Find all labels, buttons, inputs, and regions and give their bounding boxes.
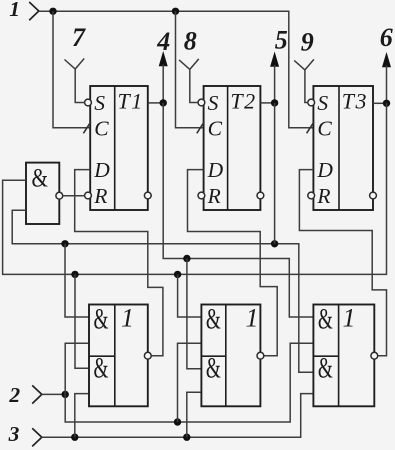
wire net-Q1 horizontal — [163, 103, 313, 317]
svg-text:1: 1 — [121, 303, 134, 332]
svg-text:1: 1 — [9, 0, 20, 21]
output arrow 6 — [382, 52, 391, 67]
wire input3 riser to gate2 input — [187, 392, 202, 437]
junction dot Q3-net to gate2 — [174, 271, 181, 278]
wire antenna 8 to S of T2 — [189, 102, 198, 104]
pin S bubble of T2 — [198, 99, 205, 106]
pin Q-bar bubble of T1 — [144, 192, 151, 199]
svg-text:D: D — [93, 158, 110, 182]
svg-text:&: & — [32, 163, 49, 192]
wire input 3 horizontal — [42, 394, 314, 438]
wire input-1 top rail — [39, 11, 314, 128]
junction dot Q2-net to gate1 — [61, 240, 68, 247]
wire Q1-net dropper to gate2 input — [187, 259, 202, 369]
svg-text:C: C — [317, 116, 332, 140]
junction dot Q2-net from T2 — [271, 240, 278, 247]
svg-text:8: 8 — [184, 27, 197, 56]
svg-text:&: & — [206, 303, 221, 336]
wire Q2-net dropper to gate1 input — [65, 244, 89, 317]
pin Q-bar bubble of T3 — [370, 192, 377, 199]
pin C dynamic slash of T3 — [307, 122, 314, 134]
junction dot Q3 — [383, 100, 390, 107]
svg-text:&: & — [94, 303, 109, 336]
flip-flop T2 body — [204, 86, 261, 210]
wire clock dropper to C of T1 — [53, 11, 90, 128]
junction dot Q2 — [271, 99, 278, 106]
AND gate DD1 body — [26, 163, 59, 224]
wire Q of T1 to junction — [148, 102, 163, 104]
input terminal 1 chevron — [29, 2, 39, 20]
junction dot Q1 — [160, 99, 167, 106]
junction dot Q1-net to gate2 — [183, 255, 190, 262]
wire gate3 output to D of T3 — [299, 170, 386, 356]
antenna terminal 7 — [65, 59, 85, 103]
svg-text:S: S — [94, 91, 105, 115]
gate D3 output bubble — [371, 352, 378, 359]
junction dot clock to T1 — [49, 8, 56, 15]
svg-text:3: 3 — [8, 422, 20, 446]
wire Q3-net dropper to gate2 input — [178, 274, 202, 317]
input terminal 2 chevron — [32, 385, 42, 403]
wire gate1 output to D of T1 — [75, 170, 163, 356]
output arrow 4 — [159, 51, 168, 66]
AND-OR gate D1 body — [89, 303, 148, 407]
junction dot input2 at gate1 — [61, 391, 68, 398]
wire antenna 9 to S of T3 — [304, 102, 308, 104]
gate D2 output bubble — [257, 352, 264, 359]
flip-flop T3 body — [313, 86, 373, 210]
flip-flop T1 body — [90, 86, 148, 210]
wire input2 lower branch — [65, 343, 313, 422]
svg-text:D: D — [316, 158, 333, 182]
output arrow 5 — [270, 52, 279, 67]
wire Q3-net dropper to gate1 input — [75, 274, 89, 368]
svg-text:6: 6 — [380, 23, 393, 52]
svg-text:T1: T1 — [118, 88, 144, 113]
pin Q-bar bubble of T2 — [257, 192, 264, 199]
junction dot input3 at gate1 — [71, 434, 78, 441]
svg-text:C: C — [94, 116, 109, 140]
svg-text:&: & — [206, 352, 221, 385]
antenna terminal 8 — [179, 59, 199, 103]
pin C dynamic slash of T1 — [83, 122, 90, 134]
svg-text:S: S — [208, 91, 219, 115]
svg-text:1: 1 — [343, 303, 356, 332]
svg-text:R: R — [207, 184, 221, 208]
wire Q of T2 to junction — [260, 102, 274, 104]
svg-text:T2: T2 — [230, 88, 256, 113]
pin R bubble of T3 — [308, 192, 315, 199]
svg-text:5: 5 — [275, 26, 288, 55]
wire Q of T3 to junction — [373, 102, 387, 104]
pin S bubble of T1 — [85, 99, 92, 106]
svg-text:R: R — [93, 184, 107, 208]
svg-text:S: S — [317, 91, 328, 115]
svg-text:7: 7 — [72, 23, 86, 52]
svg-text:9: 9 — [301, 28, 314, 57]
svg-text:2: 2 — [8, 383, 20, 407]
pin R bubble of T1 — [85, 192, 92, 199]
pin S bubble of T3 — [308, 99, 315, 106]
wire input2 riser to gate1 input — [65, 343, 89, 394]
svg-text:R: R — [316, 184, 330, 208]
wire clock dropper to C of T2 — [176, 11, 204, 128]
svg-text:&: & — [318, 352, 333, 385]
junction dot Q3-net to gate1 — [71, 271, 78, 278]
junction dot input2 at gate2 — [174, 418, 181, 425]
wire input 2 horizontal — [42, 393, 65, 395]
junction dot input3 at gate2 — [183, 434, 190, 441]
pin C dynamic slash of T2 — [197, 122, 204, 134]
svg-text:&: & — [318, 303, 333, 336]
svg-text:T3: T3 — [342, 88, 368, 113]
junction dot clock to T2 — [172, 8, 179, 15]
wire AND output to R of T1 — [63, 195, 85, 197]
svg-text:&: & — [94, 352, 109, 385]
AND gate output bubble — [56, 192, 63, 199]
svg-text:D: D — [207, 158, 224, 182]
pin R bubble of T2 — [198, 192, 205, 199]
wire input2 riser to gate2 input — [178, 343, 202, 422]
wire gate2 output to D of T2 — [188, 170, 278, 356]
antenna terminal 9 — [294, 59, 314, 103]
wire net-Q3 horizontal B — [3, 103, 387, 274]
AND-OR gate D2 body — [201, 303, 260, 407]
AND-OR gate D3 body — [313, 303, 374, 407]
svg-text:1: 1 — [246, 303, 259, 332]
gate D1 output bubble — [144, 352, 151, 359]
wire T2 Q vertical to net A — [274, 103, 276, 244]
wire net-Q2 horizontal A — [12, 210, 313, 372]
wire antenna 7 to S of T1 — [75, 102, 85, 104]
svg-text:C: C — [208, 116, 223, 140]
wire input3 riser to gate1 input — [75, 394, 89, 438]
input terminal 3 chevron — [32, 428, 42, 446]
